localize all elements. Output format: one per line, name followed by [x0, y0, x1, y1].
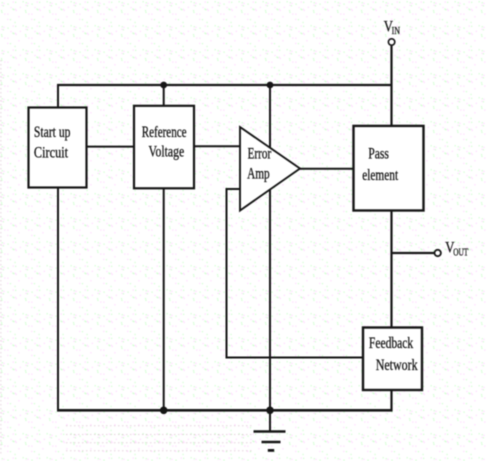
svg-text:IN: IN: [392, 26, 400, 37]
svg-text:Pass: Pass: [368, 146, 389, 163]
ground: [254, 410, 286, 450]
block: Reference Voltage: [134, 106, 194, 189]
wire: reference voltage to error amp input: [194, 145, 240, 147]
wire: start-up bottom to ground bus: [57, 188, 59, 412]
wire: feedback vertical riser: [226, 188, 228, 358]
wire: feedback network bottom to ground bus: [390, 390, 392, 411]
block: Pass element: [354, 126, 424, 211]
label VIN: [384, 18, 400, 37]
label: Pass element: [362, 146, 398, 185]
wire: start-up top stub: [57, 84, 59, 107]
label: Reference Voltage: [142, 124, 187, 161]
wire: feedback input stub into error amp: [227, 188, 241, 190]
junction: reference line on ground bus: [160, 407, 168, 415]
svg-text:Error: Error: [248, 146, 272, 163]
svg-text:Feedback: Feedback: [369, 335, 413, 352]
svg-text:Reference: Reference: [142, 124, 187, 141]
wire: error amp output to pass element: [299, 168, 354, 170]
wire: VOUT branch: [392, 252, 435, 254]
label: Feedback Network: [369, 335, 418, 374]
wire: feedback horizontal from feedback network: [226, 357, 363, 359]
wire: top VIN bus: [57, 84, 392, 86]
block: Feedback Network: [363, 328, 422, 391]
wire: pass element bottom to feedback network: [390, 211, 392, 328]
svg-text:Voltage: Voltage: [149, 144, 185, 161]
svg-text:Network: Network: [376, 357, 418, 374]
label VOUT: [445, 240, 468, 259]
wire: start-up to reference voltage: [87, 146, 135, 148]
junction: ground symbol on ground bus: [266, 407, 274, 415]
junction: ground line on VIN bus: [267, 82, 274, 89]
svg-text:Circuit: Circuit: [34, 144, 69, 161]
wire: ground line from VIN bus to ground bus (passes behind error amp): [269, 84, 271, 411]
wire: bottom ground bus: [57, 409, 393, 412]
op-amp: Error Amp: [240, 127, 300, 211]
wire: reference bottom to ground bus: [163, 188, 165, 410]
svg-text:Start up: Start up: [34, 124, 71, 141]
junction: reference line on VIN bus: [160, 82, 167, 89]
wire: VIN vertical to Pass element: [390, 46, 392, 127]
terminal VIN: [388, 39, 394, 45]
terminal VOUT: [435, 250, 441, 256]
wire: reference top stub: [163, 84, 165, 106]
svg-text:element: element: [362, 167, 398, 184]
block: Start up Circuit: [29, 108, 87, 188]
svg-text:OUT: OUT: [453, 248, 468, 259]
label: Start up Circuit: [34, 124, 71, 161]
svg-text:Amp: Amp: [247, 166, 270, 183]
label: Error Amp: [247, 146, 272, 183]
